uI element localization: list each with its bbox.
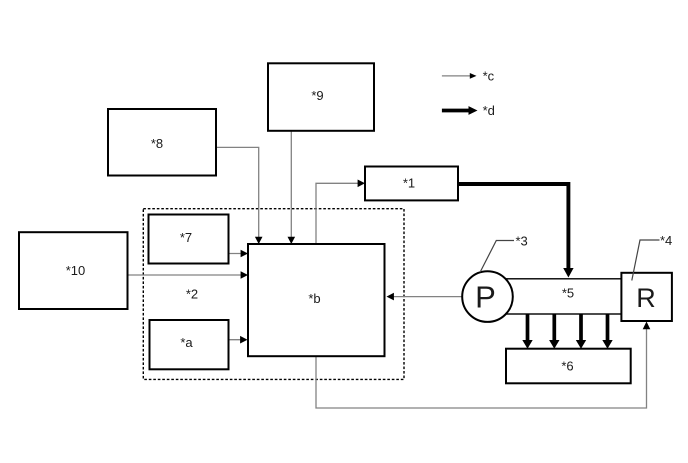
- svg-text:P: P: [475, 280, 496, 315]
- svg-text:*4: *4: [660, 233, 672, 248]
- box 7: [149, 215, 229, 264]
- svg-text:R: R: [636, 283, 656, 313]
- leader 3: [480, 241, 514, 273]
- svg-text:*2: *2: [186, 287, 198, 302]
- wire P-to-b: [389, 296, 463, 298]
- legend thick arrow d: [442, 109, 469, 113]
- wire b-to-1: [316, 183, 364, 244]
- svg-text:*5: *5: [562, 286, 574, 301]
- svg-text:*3: *3: [516, 234, 528, 249]
- box 6: [506, 349, 631, 384]
- svg-text:*6: *6: [561, 359, 573, 374]
- wire 9-to-b: [290, 131, 292, 243]
- dashed group box 2: [143, 209, 404, 380]
- wire 8-to-b: [216, 147, 259, 243]
- box 1: [365, 167, 458, 201]
- svg-text:*1: *1: [403, 176, 415, 191]
- wire 7-to-b: [229, 253, 247, 255]
- thick wire 1-to-5: [458, 184, 568, 269]
- box 9: [268, 63, 374, 131]
- svg-text:*a: *a: [180, 335, 193, 350]
- svg-text:*c: *c: [483, 68, 495, 83]
- leader 4: [632, 240, 660, 281]
- pump circle P (3): [462, 271, 513, 322]
- box b: [248, 244, 385, 356]
- wire a-to-b: [229, 339, 247, 341]
- thick arrows 5-to-6: [528, 314, 608, 341]
- svg-text:*10: *10: [66, 263, 86, 278]
- box R (4): [621, 273, 672, 321]
- legend thin arrow c: [442, 75, 471, 77]
- svg-text:*9: *9: [311, 88, 323, 103]
- svg-text:*7: *7: [180, 230, 192, 245]
- box a: [150, 320, 229, 369]
- box 8: [108, 109, 216, 176]
- svg-text:*d: *d: [483, 103, 495, 118]
- svg-text:*8: *8: [151, 136, 163, 151]
- wire b-to-R (bottom return): [316, 325, 647, 409]
- pipe 5: [487, 279, 621, 314]
- svg-text:*b: *b: [308, 291, 320, 306]
- wire 10-to-b: [128, 274, 247, 276]
- box 10: [19, 232, 128, 309]
